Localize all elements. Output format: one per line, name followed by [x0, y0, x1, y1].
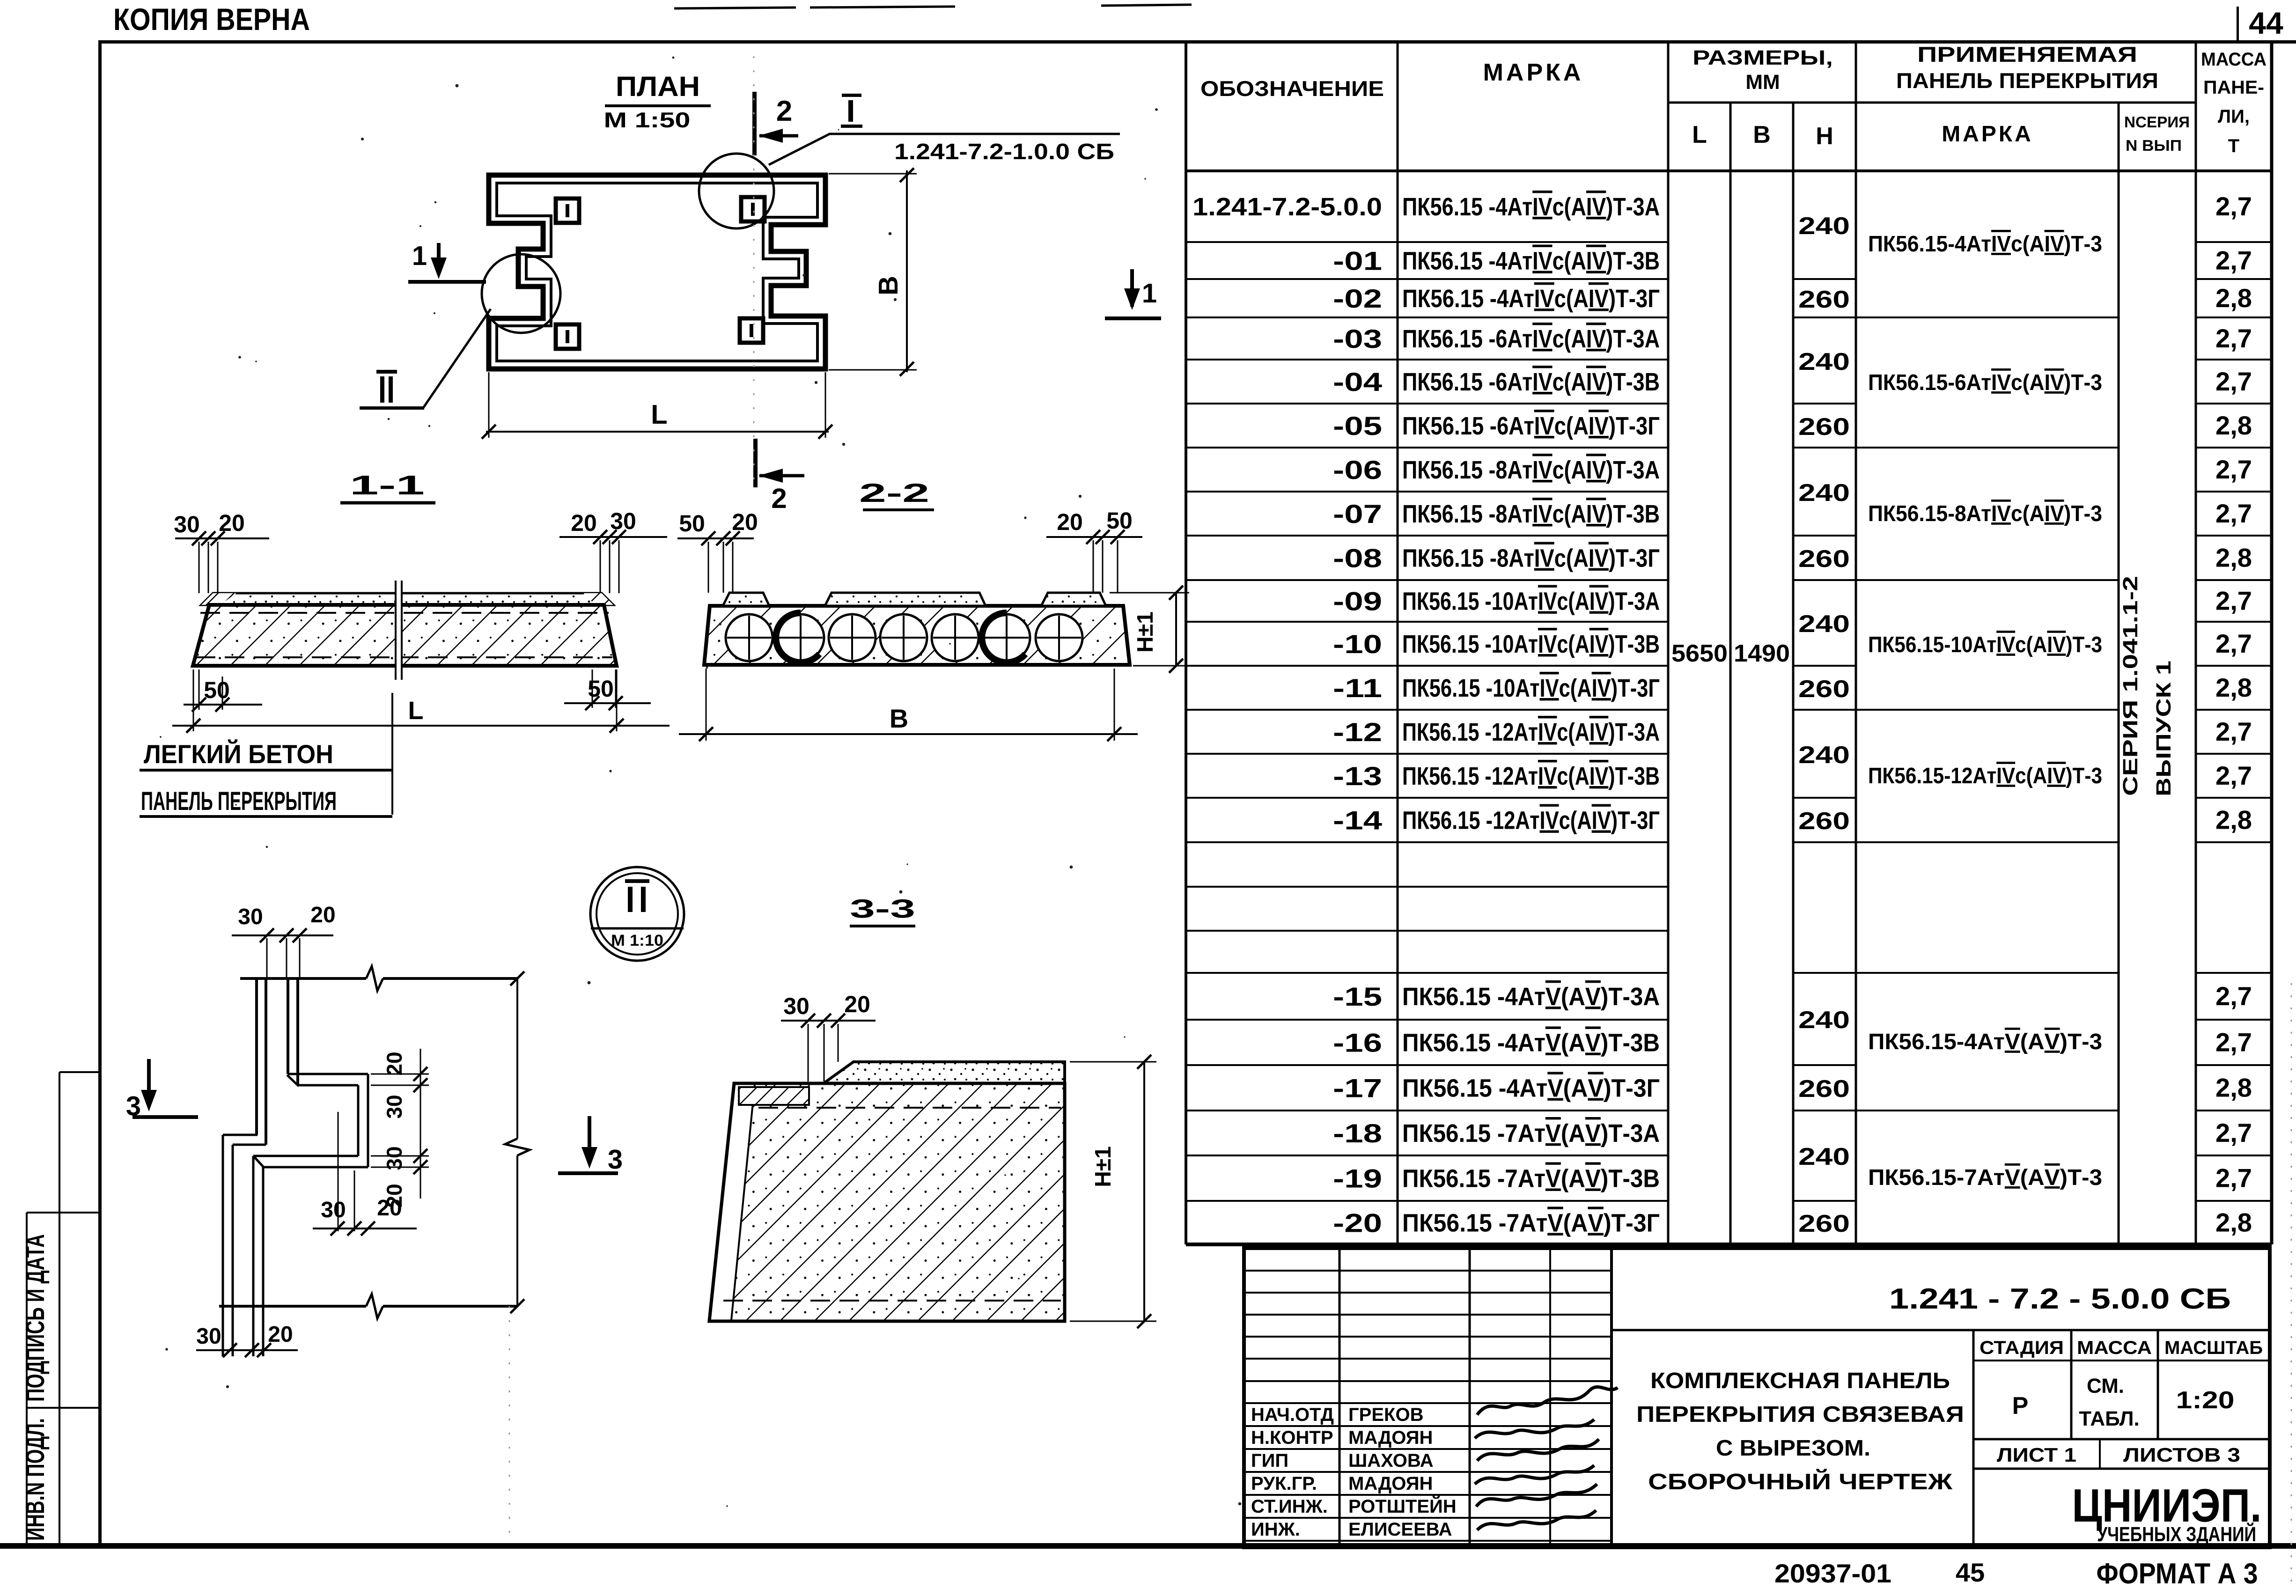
svg-text:240: 240 — [1798, 213, 1850, 240]
svg-text:260: 260 — [1798, 1210, 1850, 1237]
node II right stacked dims 20 30 30 20 — [371, 1074, 429, 1075]
svg-text:-19: -19 — [1333, 1164, 1382, 1193]
svg-text:ЛЕГКИЙ БЕТОН: ЛЕГКИЙ БЕТОН — [144, 739, 333, 769]
svg-text:260: 260 — [1798, 1075, 1850, 1103]
svg-text:2,7: 2,7 — [2215, 586, 2252, 616]
svg-text:ПК56.15-4АтIVс(АIV)Т-3: ПК56.15-4АтIVс(АIV)Т-3 — [1868, 232, 2102, 257]
table H column merged cell lines — [1793, 278, 1856, 280]
svg-text:-17: -17 — [1333, 1074, 1382, 1103]
svg-text:L: L — [651, 399, 667, 430]
svg-text:УЧЕБНЫХ ЗДАНИЙ: УЧЕБНЫХ ЗДАНИЙ — [2097, 1522, 2256, 1546]
svg-text:-03: -03 — [1333, 324, 1382, 353]
svg-text:30: 30 — [174, 511, 200, 537]
svg-text:ТАБЛ.: ТАБЛ. — [2079, 1407, 2140, 1430]
svg-text:2,8: 2,8 — [2215, 411, 2252, 440]
svg-text:30: 30 — [321, 1198, 346, 1222]
svg-text:L: L — [408, 697, 424, 725]
svg-text:ПАНЕЛЬ ПЕРЕКРЫТИЯ: ПАНЕЛЬ ПЕРЕКРЫТИЯ — [1896, 68, 2158, 93]
svg-text:2,7: 2,7 — [2215, 324, 2252, 353]
section 2-2 dim B bottom — [706, 669, 707, 741]
svg-text:ВЫПУСК 1: ВЫПУСК 1 — [2152, 661, 2175, 796]
node II bottom edge line with break — [219, 1305, 366, 1308]
title block left grid rows — [1244, 1270, 1612, 1272]
svg-text:20: 20 — [732, 509, 758, 535]
svg-text:-08: -08 — [1333, 544, 1382, 573]
section 1-1 panel body (hatched) — [193, 605, 617, 666]
svg-text:ПК56.15 -12АтIVс(АIV)Т-3А: ПК56.15 -12АтIVс(АIV)Т-3А — [1402, 718, 1660, 746]
svg-text:ЛИСТОВ 3: ЛИСТОВ 3 — [2123, 1444, 2240, 1466]
svg-text:-12: -12 — [1333, 717, 1382, 747]
svg-text:Р: Р — [2012, 1392, 2029, 1419]
svg-text:-14: -14 — [1333, 806, 1382, 835]
scan crease dotted lines — [753, 56, 755, 487]
svg-text:ПК56.15 -8АтIVс(АIV)Т-3В: ПК56.15 -8АтIVс(АIV)Т-3В — [1402, 500, 1660, 528]
svg-text:Н±1: Н±1 — [1091, 1146, 1116, 1187]
svg-text:ПОДПИСЬ И ДАТА: ПОДПИСЬ И ДАТА — [20, 1234, 50, 1402]
svg-text:-15: -15 — [1333, 982, 1382, 1011]
svg-text:МАДОЯН: МАДОЯН — [1348, 1427, 1433, 1448]
title block outer frame — [1244, 1248, 2270, 1547]
svg-text:ПК56.15 -7АтV(АV)Т-3А: ПК56.15 -7АтV(АV)Т-3А — [1402, 1119, 1660, 1147]
svg-text:2,7: 2,7 — [2215, 761, 2252, 790]
svg-text:ПК56.15 -4АтIVс(АIV)Т-3В: ПК56.15 -4АтIVс(АIV)Т-3В — [1402, 247, 1660, 275]
table outer and column lines — [1185, 41, 1187, 1244]
svg-text:260: 260 — [1798, 413, 1850, 441]
svg-text:2,7: 2,7 — [2215, 367, 2252, 396]
svg-text:МАРКА: МАРКА — [1942, 122, 2033, 147]
section 3-3 rebate hatched strip — [739, 1087, 809, 1105]
svg-text:ПК56.15 -4АтIVс(АIV)Т-3Г: ПК56.15 -4АтIVс(АIV)Т-3Г — [1402, 285, 1660, 313]
svg-text:-13: -13 — [1333, 761, 1382, 791]
svg-text:20: 20 — [382, 1052, 406, 1075]
signatures squiggles — [1477, 1387, 1618, 1415]
svg-text:-06: -06 — [1333, 455, 1382, 485]
title block left grid verticals — [1339, 1248, 1341, 1547]
svg-text:ПК56.15 -10АтIVс(АIV)Т-3А: ПК56.15 -10АтIVс(АIV)Т-3А — [1402, 588, 1660, 616]
svg-text:-07: -07 — [1333, 499, 1382, 529]
svg-text:МАССА: МАССА — [2201, 49, 2267, 70]
plan panel outline outer contour with notches — [489, 175, 825, 369]
svg-text:30: 30 — [783, 993, 809, 1019]
svg-text:ПАНЕ-: ПАНЕ- — [2203, 77, 2264, 98]
svg-text:-18: -18 — [1333, 1118, 1382, 1148]
svg-text:В: В — [1753, 121, 1771, 148]
svg-text:СМ.: СМ. — [2087, 1375, 2124, 1397]
svg-text:ММ: ММ — [1745, 71, 1780, 94]
svg-text:ПК56.15-6АтIVс(АIV)Т-3: ПК56.15-6АтIVс(АIV)Т-3 — [1868, 370, 2102, 395]
node II right extent line with break and ticks — [516, 978, 518, 1139]
plan lifting loop top-left — [556, 199, 579, 223]
svg-text:КОПИЯ ВЕРНА: КОПИЯ ВЕРНА — [113, 2, 310, 37]
svg-text:240: 240 — [1798, 1007, 1850, 1034]
svg-text:ПК56.15 -10АтIVс(АIV)Т-3В: ПК56.15 -10АтIVс(АIV)Т-3В — [1402, 630, 1660, 658]
svg-text:20: 20 — [571, 510, 597, 536]
svg-text:ПК56.15 -7АтV(АV)Т-3В: ПК56.15 -7АтV(АV)Т-3В — [1402, 1165, 1660, 1193]
svg-text:ПЕРЕКРЫТИЯ СВЯЗЕВАЯ: ПЕРЕКРЫТИЯ СВЯЗЕВАЯ — [1636, 1402, 1964, 1427]
detail callout circle II on plan — [482, 254, 560, 333]
svg-text:МАРКА: МАРКА — [1483, 59, 1584, 86]
node II label circle — [590, 867, 684, 961]
plan lifting loop top-right — [741, 197, 765, 221]
section 1-1 dim 50 bottom-right — [592, 669, 593, 708]
node II notch step contour (double line) — [287, 978, 289, 1074]
dimension L (plan bottom) — [488, 372, 490, 438]
section 2-2 dim H±1 right — [1110, 592, 1189, 594]
svg-text:ПАНЕЛЬ ПЕРЕКРЫТИЯ: ПАНЕЛЬ ПЕРЕКРЫТИЯ — [141, 786, 337, 816]
plan lifting loop bottom-right — [740, 318, 763, 343]
svg-text:260: 260 — [1798, 545, 1850, 573]
svg-text:ПК56.15 -10АтIVс(АIV)Т-3Г: ПК56.15 -10АтIVс(АIV)Т-3Г — [1402, 674, 1660, 702]
label I — [842, 94, 861, 97]
section 3-3 topping layer — [824, 1062, 1065, 1083]
label II — [376, 370, 397, 374]
svg-text:1: 1 — [1142, 278, 1157, 309]
plan panel outline inner contour — [497, 183, 817, 361]
svg-text:3: 3 — [608, 1144, 623, 1175]
svg-text:ПК56.15 -4АтV(АV)Т-3А: ПК56.15 -4АтV(АV)Т-3А — [1402, 983, 1660, 1011]
svg-text:ПРИМЕНЯЕМАЯ: ПРИМЕНЯЕМАЯ — [1917, 42, 2137, 66]
svg-text:ГИП: ГИП — [1251, 1450, 1288, 1471]
svg-text:20: 20 — [377, 1196, 402, 1221]
svg-text:50: 50 — [204, 677, 230, 703]
table applied-panel column group lines — [1856, 316, 2119, 318]
svg-text:20: 20 — [310, 903, 335, 927]
svg-text:2: 2 — [771, 483, 787, 514]
svg-text:М 1:50: М 1:50 — [604, 108, 691, 132]
svg-text:ПК56.15 -6АтIVс(АIV)Т-3Г: ПК56.15 -6АтIVс(АIV)Т-3Г — [1402, 412, 1660, 440]
svg-text:ПК56.15 -6АтIVс(АIV)Т-3В: ПК56.15 -6АтIVс(АIV)Т-3В — [1402, 368, 1660, 396]
svg-text:ПК56.15-8АтIVс(АIV)Т-3: ПК56.15-8АтIVс(АIV)Т-3 — [1868, 501, 2102, 526]
svg-text:СЕРИЯ 1.041.1-2: СЕРИЯ 1.041.1-2 — [2119, 576, 2142, 796]
svg-text:2,8: 2,8 — [2215, 283, 2252, 313]
svg-text:-05: -05 — [1333, 411, 1382, 441]
section 3-3 dim H±1 — [1070, 1061, 1156, 1063]
svg-text:СТ.ИНЖ.: СТ.ИНЖ. — [1251, 1496, 1328, 1517]
svg-text:1.241-7.2-1.0.0 СБ: 1.241-7.2-1.0.0 СБ — [894, 140, 1114, 164]
svg-text:2,8: 2,8 — [2215, 805, 2252, 835]
svg-text:2,8: 2,8 — [2215, 543, 2252, 573]
svg-text:44: 44 — [2249, 6, 2283, 40]
svg-text:ПК56.15 -8АтIVс(АIV)Т-3А: ПК56.15 -8АтIVс(АIV)Т-3А — [1402, 456, 1660, 484]
section mark 2 bottom — [753, 439, 758, 487]
svg-text:260: 260 — [1798, 808, 1850, 835]
svg-text:2,7: 2,7 — [2215, 717, 2252, 746]
svg-text:ЛИСТ 1: ЛИСТ 1 — [1997, 1444, 2076, 1466]
svg-text:50: 50 — [679, 510, 705, 537]
dimension B (plan right) — [829, 173, 917, 175]
svg-text:1-1: 1-1 — [350, 470, 425, 500]
svg-text:-11: -11 — [1333, 673, 1382, 703]
svg-text:2,7: 2,7 — [2215, 1163, 2252, 1193]
left margin boxes — [59, 1072, 60, 1544]
svg-text:20: 20 — [268, 1322, 293, 1347]
svg-text:ПК56.15-10АтIVс(АIV)Т-3: ПК56.15-10АтIVс(АIV)Т-3 — [1868, 633, 2102, 657]
svg-text:5650: 5650 — [1671, 640, 1728, 667]
svg-text:-01: -01 — [1333, 246, 1382, 276]
svg-text:2,7: 2,7 — [2215, 499, 2252, 528]
svg-text:1:20: 1:20 — [2176, 1387, 2235, 1414]
svg-text:50: 50 — [588, 676, 614, 702]
svg-text:30: 30 — [382, 1095, 406, 1118]
section 1-1 dim 50 bottom-left — [199, 669, 200, 710]
svg-text:СБОРОЧНЫЙ ЧЕРТЕЖ: СБОРОЧНЫЙ ЧЕРТЕЖ — [1648, 1469, 1953, 1494]
plan lifting loop bottom-left — [556, 324, 579, 349]
svg-text:2,7: 2,7 — [2215, 1028, 2252, 1057]
svg-text:Н.КОНТР: Н.КОНТР — [1251, 1427, 1333, 1448]
svg-text:СТАДИЯ: СТАДИЯ — [1980, 1338, 2064, 1358]
svg-text:МАСШТАБ: МАСШТАБ — [2164, 1338, 2263, 1358]
svg-text:30: 30 — [196, 1324, 221, 1349]
svg-text:ПК56.15 -6АтIVс(АIV)Т-3А: ПК56.15 -6АтIVс(АIV)Т-3А — [1402, 325, 1660, 353]
table mass column row lines — [2196, 241, 2272, 243]
svg-text:20937-01: 20937-01 — [1774, 1559, 1891, 1588]
svg-text:240: 240 — [1798, 1143, 1850, 1170]
leader vertical line for legend — [391, 693, 393, 815]
svg-text:50: 50 — [1106, 507, 1133, 534]
svg-text:2,7: 2,7 — [2215, 246, 2252, 275]
svg-text:2,7: 2,7 — [2215, 1118, 2252, 1147]
svg-text:NСЕРИЯ: NСЕРИЯ — [2124, 113, 2190, 131]
svg-text:ПК56.15 -4АтIVс(АIV)Т-3А: ПК56.15 -4АтIVс(АIV)Т-3А — [1402, 193, 1660, 221]
svg-text:РУК.ГР.: РУК.ГР. — [1251, 1473, 1317, 1494]
svg-text:ПК56.15 -4АтV(АV)Т-3Г: ПК56.15 -4АтV(АV)Т-3Г — [1402, 1074, 1660, 1103]
svg-text:240: 240 — [1798, 742, 1850, 769]
svg-text:240: 240 — [1798, 610, 1850, 638]
section 1-1 dashed reinforcement lines — [200, 612, 609, 614]
svg-text:20: 20 — [844, 991, 870, 1017]
svg-text:2,7: 2,7 — [2215, 629, 2252, 658]
svg-text:2,7: 2,7 — [2215, 455, 2252, 484]
sheet border bottom — [0, 1543, 2296, 1549]
section mark 2 top — [752, 92, 757, 155]
svg-text:30: 30 — [238, 905, 263, 929]
svg-text:ПК56.15 -12АтIVс(АIV)Т-3В: ПК56.15 -12АтIVс(АIV)Т-3В — [1402, 762, 1660, 790]
section 3-3 dashed reinforcement lines — [758, 1107, 1061, 1109]
svg-text:-10: -10 — [1333, 629, 1382, 659]
svg-text:МАССА: МАССА — [2077, 1338, 2152, 1358]
svg-text:Н: Н — [1816, 123, 1833, 150]
svg-text:М 1:10: М 1:10 — [611, 932, 663, 949]
svg-text:ПК56.15-4АтV(АV)Т-3: ПК56.15-4АтV(АV)Т-3 — [1868, 1030, 2102, 1054]
svg-text:-02: -02 — [1333, 284, 1382, 313]
svg-text:РАЗМЕРЫ,: РАЗМЕРЫ, — [1693, 46, 1833, 69]
svg-text:ПК56.15 -8АтIVс(АIV)Т-3Г: ПК56.15 -8АтIVс(АIV)Т-3Г — [1402, 544, 1660, 573]
svg-text:2,8: 2,8 — [2215, 1208, 2252, 1237]
leader line to detail I label — [769, 134, 1120, 165]
svg-text:2,8: 2,8 — [2215, 673, 2252, 702]
svg-text:В: В — [890, 704, 908, 733]
detail callout circle I on plan — [699, 154, 774, 228]
svg-text:В: В — [873, 276, 904, 295]
svg-text:ЛИ,: ЛИ, — [2218, 106, 2250, 127]
svg-text:3-3: 3-3 — [850, 894, 915, 923]
svg-text:ГРЕКОВ: ГРЕКОВ — [1348, 1405, 1423, 1425]
section 1-1 concrete topping layer — [201, 593, 613, 605]
svg-text:N ВЫП: N ВЫП — [2126, 137, 2182, 154]
svg-text:2,7: 2,7 — [2215, 981, 2252, 1011]
svg-text:2,7: 2,7 — [2215, 191, 2252, 221]
svg-text:20: 20 — [1057, 509, 1083, 535]
title block stage/mass/scale cells — [1972, 1330, 1975, 1547]
svg-text:-09: -09 — [1333, 587, 1382, 616]
svg-text:-20: -20 — [1333, 1208, 1382, 1238]
svg-text:ПК56.15 -12АтIVс(АIV)Т-3Г: ПК56.15 -12АтIVс(АIV)Т-3Г — [1402, 807, 1660, 835]
sheet border top — [98, 40, 2296, 44]
node II left edge contour (double line) — [255, 978, 258, 1135]
svg-text:260: 260 — [1798, 676, 1850, 703]
svg-text:-04: -04 — [1333, 367, 1382, 397]
page number tick — [2237, 7, 2239, 42]
svg-text:ФОРМАТ А 3: ФОРМАТ А 3 — [2097, 1558, 2258, 1590]
svg-text:НАЧ.ОТД: НАЧ.ОТД — [1251, 1405, 1334, 1425]
svg-text:ПК56.15 -7АтV(АV)Т-3Г: ПК56.15 -7АтV(АV)Т-3Г — [1402, 1209, 1660, 1237]
svg-text:260: 260 — [1798, 286, 1850, 313]
section 2-2 slab body (hatched) — [704, 606, 1130, 665]
svg-text:240: 240 — [1798, 348, 1850, 375]
svg-text:1490: 1490 — [1734, 640, 1790, 667]
section 1-1 break line — [396, 581, 401, 680]
svg-text:Т: Т — [2228, 136, 2239, 156]
svg-text:КОМПЛЕКСНАЯ ПАНЕЛЬ: КОМПЛЕКСНАЯ ПАНЕЛЬ — [1650, 1368, 1950, 1393]
leader line to detail II label — [422, 309, 491, 409]
svg-text:1.241 - 7.2 - 5.0.0 СБ: 1.241 - 7.2 - 5.0.0 СБ — [1889, 1283, 2231, 1315]
svg-text:240: 240 — [1798, 479, 1850, 507]
svg-text:L: L — [1692, 121, 1707, 148]
svg-text:ПК56.15 -4АтV(АV)Т-3В: ПК56.15 -4АтV(АV)Т-3В — [1402, 1029, 1660, 1057]
section 3-3 panel body (hatched) — [709, 1083, 1065, 1321]
svg-text:1: 1 — [412, 241, 427, 271]
svg-text:Н±1: Н±1 — [1133, 611, 1158, 653]
svg-text:45: 45 — [1956, 1558, 1985, 1587]
svg-text:2-2: 2-2 — [859, 478, 929, 507]
svg-text:-16: -16 — [1333, 1028, 1382, 1058]
svg-text:2: 2 — [776, 95, 792, 127]
svg-text:ПК56.15-7АтV(АV)Т-3: ПК56.15-7АтV(АV)Т-3 — [1868, 1165, 2102, 1190]
svg-text:30: 30 — [610, 508, 636, 534]
svg-text:ИНВ.N ПОДЛ.: ИНВ.N ПОДЛ. — [20, 1418, 50, 1541]
scan artifact dashes top — [674, 7, 796, 8]
sheet border left — [98, 40, 102, 1547]
scan speckles — [802, 274, 805, 277]
table row lines (designation and mark columns) — [1186, 241, 1668, 243]
section 2-2 hollow cores — [726, 614, 773, 661]
title block doc number cell — [1612, 1329, 2270, 1331]
svg-text:ИНЖ.: ИНЖ. — [1251, 1519, 1300, 1540]
section 3-3 left bearing band — [709, 1083, 755, 1321]
section 2-2 topping patches — [723, 593, 769, 606]
svg-text:1.241-7.2-5.0.0: 1.241-7.2-5.0.0 — [1192, 193, 1382, 221]
svg-text:ШАХОВА: ШАХОВА — [1348, 1450, 1434, 1471]
svg-text:ЕЛИСЕЕВА: ЕЛИСЕЕВА — [1348, 1519, 1452, 1540]
svg-text:ПЛАН: ПЛАН — [616, 71, 700, 102]
svg-text:ПК56.15-12АтIVс(АIV)Т-3: ПК56.15-12АтIVс(АIV)Т-3 — [1868, 764, 2102, 788]
svg-text:ОБОЗНАЧЕНИЕ: ОБОЗНАЧЕНИЕ — [1200, 76, 1384, 101]
section 1-1 dim L bottom — [193, 669, 194, 731]
svg-text:РОТШТЕЙН: РОТШТЕЙН — [1348, 1495, 1457, 1517]
node II top edge line with break — [240, 977, 366, 980]
svg-text:С ВЫРЕЗОМ.: С ВЫРЕЗОМ. — [1716, 1436, 1870, 1461]
svg-text:МАДОЯН: МАДОЯН — [1348, 1473, 1433, 1494]
svg-text:2,8: 2,8 — [2215, 1073, 2252, 1103]
svg-text:30: 30 — [382, 1146, 406, 1170]
